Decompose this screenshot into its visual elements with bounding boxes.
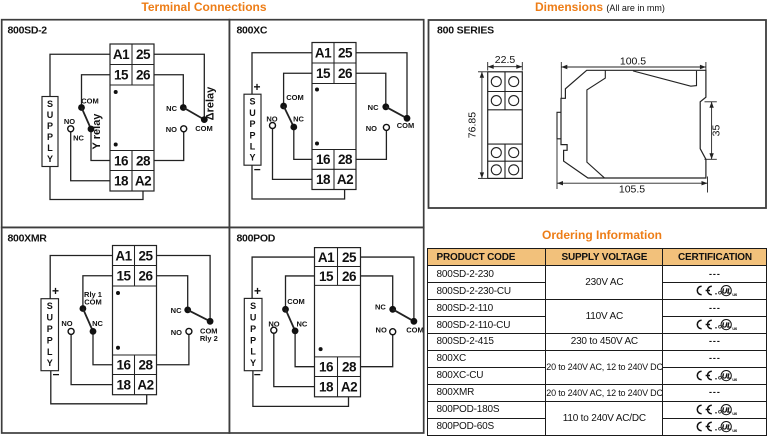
wire 25 to right COM	[356, 53, 407, 119]
wire A2 to supply-	[51, 371, 147, 404]
heading Terminal Connections	[104, 0, 304, 14]
wire NO to 18	[274, 333, 315, 386]
svg-text:L: L	[250, 142, 256, 152]
supply source	[41, 299, 59, 371]
svg-text:26: 26	[342, 269, 357, 284]
svg-text:U: U	[249, 108, 256, 118]
left relay contact NC	[292, 328, 299, 335]
wire A2 to supply-	[253, 371, 349, 407]
svg-text:NC: NC	[92, 319, 103, 328]
right relay contact NO	[390, 329, 396, 335]
svg-text:Y relay: Y relay	[91, 113, 103, 150]
svg-text:800SD-2: 800SD-2	[8, 25, 48, 37]
svg-text:22.5: 22.5	[495, 54, 516, 66]
svg-text:16: 16	[316, 152, 331, 167]
dimension 35	[705, 101, 717, 103]
svg-text:S: S	[249, 97, 255, 107]
wire right NO to 28	[356, 130, 386, 159]
svg-text:UL: UL	[722, 422, 732, 431]
svg-text:NO: NO	[268, 319, 279, 328]
terminal block 800XC	[312, 43, 356, 190]
terminal block 800XMR	[113, 246, 157, 395]
side view DIN clip	[557, 112, 561, 139]
wire NO to 18	[71, 334, 112, 384]
svg-text:us: us	[732, 411, 737, 416]
dimension 105.5	[556, 139, 558, 189]
svg-text:76.85: 76.85	[467, 112, 479, 138]
dimensions box frame 800 SERIES	[429, 20, 767, 208]
svg-text:+: +	[254, 284, 261, 298]
timing dot 1	[319, 347, 323, 351]
right relay contact COM	[411, 318, 418, 325]
svg-text:25: 25	[342, 250, 357, 265]
left relay contact COM	[78, 104, 85, 111]
svg-text:−: −	[254, 163, 261, 177]
svg-text:26: 26	[136, 68, 151, 83]
wire NO to 18	[273, 129, 313, 180]
right relay blade	[183, 108, 204, 120]
left relay contact NO	[271, 327, 277, 333]
svg-text:COM: COM	[286, 93, 304, 102]
right relay contact NC	[184, 307, 191, 314]
wire right NO to 28	[157, 334, 189, 364]
svg-text:A1: A1	[315, 46, 332, 61]
right relay contact COM	[201, 116, 208, 123]
svg-text:Rly 2: Rly 2	[200, 334, 218, 343]
svg-text:16: 16	[114, 153, 129, 168]
svg-text:NC: NC	[368, 103, 379, 112]
side view inner contour	[587, 71, 605, 178]
panel frame 800XMR	[2, 227, 230, 433]
svg-text:us: us	[732, 326, 737, 331]
svg-text:A2: A2	[337, 172, 353, 187]
svg-text:S: S	[47, 99, 53, 109]
svg-text:28: 28	[136, 153, 151, 168]
svg-text:COM: COM	[84, 298, 102, 307]
ordering information table	[427, 248, 768, 436]
svg-text:800POD: 800POD	[237, 233, 276, 245]
wire NC to 16	[294, 127, 312, 159]
svg-text:NC: NC	[171, 306, 182, 315]
svg-text:U: U	[47, 110, 54, 120]
svg-text:105.5: 105.5	[619, 184, 645, 196]
wire NC to 16	[295, 331, 314, 367]
wire 26 to right NC	[356, 73, 386, 107]
wire 25 to right COM	[361, 257, 414, 321]
svg-text:15: 15	[116, 269, 131, 284]
svg-text:25: 25	[138, 248, 153, 263]
wire 26 to right NC	[361, 276, 393, 309]
dimension 100.5	[560, 62, 562, 98]
left relay contact NC	[88, 126, 95, 133]
supply source	[244, 94, 261, 165]
side view outline	[561, 70, 706, 178]
svg-text:P: P	[249, 119, 255, 129]
svg-text:Y: Y	[249, 153, 255, 163]
svg-text:18: 18	[316, 172, 331, 187]
svg-text:U: U	[250, 312, 257, 322]
svg-text:NC: NC	[375, 303, 386, 312]
svg-text:35: 35	[711, 125, 723, 137]
svg-text:100.5: 100.5	[620, 55, 646, 67]
wire NC to 16	[91, 129, 110, 161]
svg-text:L: L	[47, 143, 53, 153]
svg-text:800XMR: 800XMR	[8, 233, 48, 245]
panel frame 800POD	[229, 227, 423, 433]
svg-text:NC: NC	[296, 319, 307, 328]
svg-text:COM: COM	[195, 124, 213, 133]
svg-text:26: 26	[138, 269, 153, 284]
wire COM to 15	[83, 276, 113, 309]
svg-text:A2: A2	[135, 174, 151, 189]
left relay blade	[82, 108, 92, 130]
svg-text:NC: NC	[166, 104, 177, 113]
right relay blade	[386, 107, 407, 119]
right relay contact COM	[207, 318, 214, 325]
svg-text:Y: Y	[47, 154, 53, 164]
svg-text:800XC: 800XC	[237, 25, 268, 37]
left relay contact COM	[280, 103, 287, 110]
wire 25 to right COM	[154, 54, 204, 119]
svg-text:P: P	[47, 121, 53, 131]
wire right NO to 28	[154, 132, 184, 161]
left relay blade	[286, 309, 296, 331]
svg-text:NO: NO	[376, 325, 387, 334]
supply source	[42, 97, 58, 167]
svg-text:UL: UL	[722, 405, 732, 414]
wire COM to 15	[82, 75, 111, 108]
svg-text:26: 26	[338, 66, 353, 81]
svg-text:P: P	[249, 130, 255, 140]
timing dot 1	[114, 90, 118, 94]
timing dot 1	[315, 88, 319, 92]
wire NC to 16	[93, 331, 113, 364]
svg-text:us: us	[732, 428, 737, 433]
svg-text:us: us	[732, 292, 737, 297]
panel frame 800SD-2	[2, 20, 230, 228]
svg-text:NO: NO	[366, 124, 377, 133]
svg-text:A1: A1	[113, 47, 130, 62]
svg-text:S: S	[47, 301, 53, 311]
dimension 22.5	[487, 62, 489, 71]
wire right NO to 28	[361, 335, 393, 367]
svg-text:A2: A2	[341, 379, 357, 394]
svg-text:28: 28	[342, 360, 357, 375]
svg-text:NC: NC	[293, 115, 304, 124]
svg-text:COM: COM	[406, 325, 424, 334]
wire A2 to supply-	[252, 165, 345, 199]
svg-text:P: P	[250, 324, 256, 334]
right relay contact COM	[404, 115, 411, 122]
svg-text:S: S	[250, 301, 256, 311]
left relay blade	[284, 106, 294, 127]
svg-text:−: −	[52, 367, 59, 381]
left relay contact COM	[80, 305, 87, 312]
side view label wedge	[633, 71, 697, 86]
right relay contact NO	[181, 126, 187, 132]
svg-text:A1: A1	[318, 250, 335, 265]
svg-text:16: 16	[319, 360, 334, 375]
svg-text:NC: NC	[73, 134, 84, 143]
terminal block 800SD-2	[110, 44, 154, 191]
svg-text:15: 15	[114, 68, 129, 83]
left relay contact NO	[68, 126, 74, 132]
svg-text:25: 25	[338, 46, 353, 61]
right relay contact NC	[382, 103, 389, 110]
svg-text:NO: NO	[171, 328, 182, 337]
svg-text:18: 18	[116, 377, 131, 392]
svg-text:25: 25	[136, 47, 151, 62]
wire 26 to right NC	[157, 276, 188, 310]
svg-text:U: U	[47, 313, 54, 323]
front view body	[488, 72, 523, 179]
svg-text:A2: A2	[137, 377, 153, 392]
svg-text:P: P	[47, 324, 53, 334]
right relay blade	[188, 310, 210, 321]
timing dot 1	[116, 291, 120, 295]
wire supply+ to A1	[50, 256, 112, 299]
svg-text:NO: NO	[64, 117, 75, 126]
svg-text:800 SERIES: 800 SERIES	[437, 25, 494, 37]
timing dot 2	[116, 346, 120, 350]
right relay contact NC	[389, 306, 396, 313]
right relay contact NO	[186, 328, 192, 334]
right relay contact NO	[383, 124, 389, 130]
right relay blade	[393, 309, 414, 321]
svg-text:+: +	[52, 284, 59, 298]
svg-text:NO: NO	[61, 319, 72, 328]
wire A2 to supply-	[50, 167, 143, 200]
svg-text:P: P	[250, 335, 256, 345]
svg-text:28: 28	[138, 358, 153, 373]
left relay contact NC	[90, 328, 97, 335]
svg-text:COM: COM	[397, 121, 415, 130]
terminal block 800POD	[315, 248, 361, 397]
svg-text:15: 15	[316, 66, 331, 81]
wire supply+ to A1	[252, 53, 312, 94]
svg-text:18: 18	[319, 379, 334, 394]
svg-text:+: +	[253, 80, 260, 94]
left relay contact NO	[270, 123, 276, 129]
wire COM to 15	[286, 276, 315, 309]
svg-text:COM: COM	[287, 297, 305, 306]
timing dot 2	[114, 143, 118, 147]
wire 25 to right COM	[157, 256, 211, 322]
svg-text:18: 18	[114, 174, 129, 189]
left relay contact NO	[68, 328, 74, 334]
heading Ordering Information	[522, 228, 682, 242]
wire NO to 18	[71, 132, 110, 181]
svg-text:P: P	[47, 335, 53, 345]
wire supply+ to A1	[50, 54, 110, 96]
left relay contact COM	[282, 306, 289, 313]
wire COM to 15	[284, 73, 312, 106]
wire supply+ to A1	[252, 257, 314, 298]
svg-text:16: 16	[116, 358, 131, 373]
svg-text:−: −	[254, 367, 261, 381]
svg-text:L: L	[250, 347, 256, 357]
svg-text:P: P	[47, 132, 53, 142]
front view terminal screws	[491, 77, 501, 87]
svg-text:UL: UL	[722, 371, 732, 380]
right relay contact NC	[180, 104, 187, 111]
panel frame 800XC	[229, 20, 423, 228]
timing dot 2	[315, 142, 319, 146]
svg-text:L: L	[47, 347, 53, 357]
left relay blade	[83, 309, 93, 332]
dimension 76.85	[478, 71, 487, 73]
heading Dimensions	[535, 0, 665, 14]
svg-text:15: 15	[319, 269, 334, 284]
svg-text:UL: UL	[722, 321, 732, 330]
svg-text:A1: A1	[115, 248, 132, 263]
supply source	[244, 298, 262, 370]
svg-text:UL: UL	[722, 287, 732, 296]
left relay contact NC	[290, 124, 297, 131]
svg-text:NO: NO	[266, 115, 277, 124]
svg-text:28: 28	[338, 152, 353, 167]
wire 26 to right NC	[154, 75, 183, 108]
svg-text:us: us	[732, 377, 737, 382]
svg-text:COM: COM	[81, 97, 99, 106]
svg-text:Δrelay: Δrelay	[205, 86, 217, 120]
svg-text:NO: NO	[166, 125, 177, 134]
